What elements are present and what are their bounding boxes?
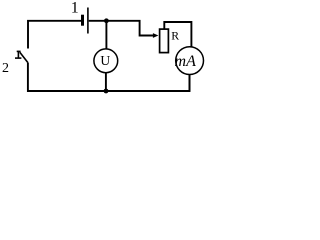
wire: junction down to voltmeter	[105, 21, 107, 49]
wire: top-left run from switch up and right to battery	[28, 21, 81, 49]
battery cell (positive thin long plate)	[87, 8, 89, 34]
svg-text:2: 2	[2, 61, 9, 76]
voltmeter U (circle)	[94, 49, 118, 73]
wire: voltmeter down to bottom rail	[105, 73, 107, 91]
switch 2 handle bottom tick	[15, 57, 21, 59]
svg-text:U: U	[100, 53, 110, 68]
ammeter mA (circle)	[176, 47, 204, 75]
node: junction dot top	[104, 18, 109, 23]
battery cell (negative thick short plate)	[81, 15, 84, 26]
wire: ammeter down to bottom rail	[189, 74, 191, 91]
svg-text:mA: mA	[175, 53, 197, 70]
switch 2 handle bar	[17, 51, 19, 59]
wire: battery to junction, corner down and across to rheostat wiper	[89, 21, 154, 36]
svg-text:1: 1	[71, 0, 79, 17]
wire: bottom rail from switch to ammeter	[28, 63, 190, 91]
switch 2 blade	[20, 52, 28, 62]
svg-text:R: R	[171, 28, 179, 42]
node: junction dot bottom	[104, 89, 109, 94]
switch 2 handle top tick	[17, 50, 21, 52]
wire: rheostat top stub across and down to ammeter	[164, 22, 191, 47]
rheostat R (resistor body)	[160, 29, 169, 52]
wiper arrowhead into rheostat	[153, 33, 159, 38]
